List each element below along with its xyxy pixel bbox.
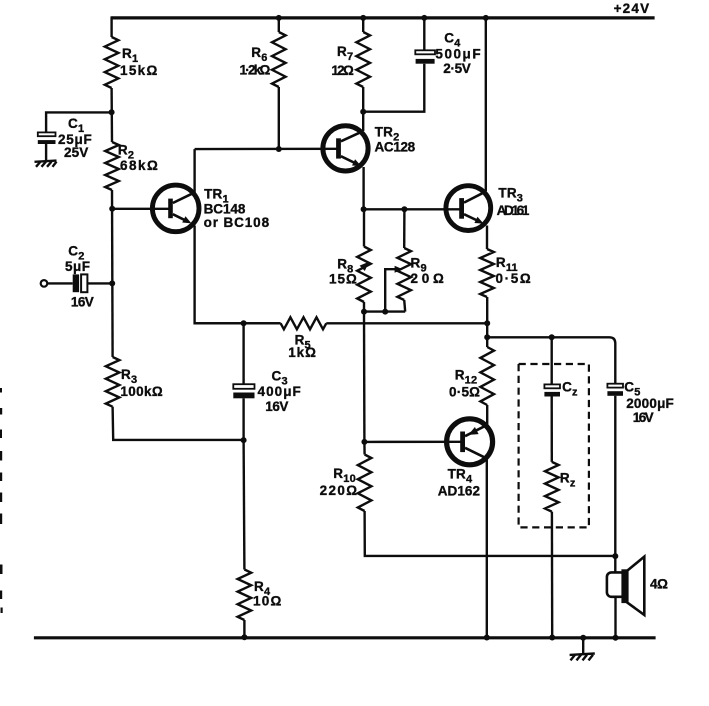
svg-text:10Ω: 10Ω (253, 594, 282, 609)
node C3 top (241, 320, 247, 326)
transistor TR4 (447, 419, 493, 465)
wire R10 to speaker node (365, 511, 616, 556)
svg-text:AD162: AD162 (438, 484, 481, 499)
wire node to R8 (363, 209, 365, 246)
svg-text:100kΩ: 100kΩ (120, 384, 162, 399)
node speaker-0V (613, 635, 619, 641)
svg-text:15Ω: 15Ω (329, 272, 357, 287)
svg-text:400μF: 400μF (258, 384, 302, 399)
wire C3 top lead (242, 323, 244, 384)
node speaker top (612, 553, 618, 559)
node junction C2 input (109, 280, 115, 286)
svg-text:5μF: 5μF (65, 259, 90, 274)
wire C3 bottom lead (242, 398, 244, 440)
wire takeoff to R12 (486, 337, 488, 347)
wire Cz to Rz (551, 397, 553, 462)
wire node to R10 (363, 442, 366, 455)
resistor R6 (272, 32, 286, 87)
svg-text:16V: 16V (633, 410, 654, 425)
node junction R2-TR1 base (109, 206, 115, 212)
svg-text:1·2kΩ: 1·2kΩ (240, 63, 271, 78)
node TR2emitter-R8 (361, 206, 367, 212)
wire R6 to TR2 base line (278, 87, 280, 149)
ground symbol (570, 654, 595, 655)
svg-text:2·5V: 2·5V (443, 61, 471, 76)
resistor R3 (106, 357, 120, 407)
resistor R1 (105, 37, 119, 88)
Zobel network dashed box (519, 364, 589, 527)
svg-text:25V: 25V (64, 145, 89, 160)
wire +24V supply rail (111, 16, 654, 19)
wire ground stub (582, 638, 584, 654)
wire TR1 collector to TR2 base (195, 148, 339, 151)
wire output rail right (326, 322, 487, 324)
resistor R8 (357, 247, 371, 303)
wire rail to C4 (423, 18, 425, 50)
svg-text:AC128: AC128 (375, 140, 416, 155)
resistor R12 (480, 347, 494, 405)
node R4-0V (241, 634, 247, 640)
node R9 wiper bottom (382, 309, 388, 315)
svg-text:+24V: +24V (614, 1, 650, 16)
wire R8 bottom (363, 302, 365, 312)
node rail-TR3 (483, 15, 489, 21)
resistor R11 (480, 249, 494, 297)
svg-text:16V: 16V (265, 399, 288, 414)
node Rz-0V (549, 635, 555, 641)
wire R1 to R2 (110, 88, 113, 142)
node TR2 collector junction (360, 109, 366, 115)
capacitor Cz (544, 384, 560, 388)
wire R9 bottom (404, 300, 405, 312)
transistor TR3 (446, 186, 491, 231)
node output takeoff (484, 334, 490, 340)
wire node to R4 (242, 440, 245, 569)
wire R8 node down to TR4 base node (363, 312, 366, 442)
capacitor C4 (415, 50, 435, 54)
loudspeaker (607, 557, 644, 615)
node R8 bottom (361, 309, 367, 315)
node R3-C3-R4 (241, 437, 247, 443)
wire TR4 base (364, 441, 460, 444)
svg-text:220Ω: 220Ω (320, 483, 358, 498)
capacitor C5 (607, 384, 623, 388)
wire R8-R9 bottom link (364, 310, 405, 312)
svg-text:500μF: 500μF (435, 46, 480, 61)
wire R12 to TR4 emitter (486, 405, 488, 425)
wire C1 to ground (45, 144, 47, 161)
svg-text:15kΩ: 15kΩ (120, 63, 158, 78)
svg-text:68kΩ: 68kΩ (120, 158, 158, 173)
wire junction to C1 (46, 112, 112, 132)
ground C1 (35, 161, 57, 162)
resistor R2 (105, 142, 119, 190)
wire C4 to TR2 collector node (363, 64, 424, 112)
wire R3 to C3 node (113, 407, 244, 440)
wire R4 to 0V rail (243, 620, 245, 638)
wire Rz to 0V rail (551, 512, 554, 638)
wire TR4 collector to 0V (486, 459, 488, 638)
wire TR2 emitter to TR3 base (364, 208, 460, 210)
wire C5 to speaker (614, 396, 616, 573)
wire TR2 collector (362, 112, 364, 131)
resistor R9 (397, 248, 411, 300)
R9 wiper arrowhead (395, 266, 403, 273)
node rail-R6 (276, 15, 282, 21)
node TR4 base-R10 (361, 439, 367, 445)
wire node to R9 (403, 209, 406, 248)
resistor R7 (356, 32, 370, 87)
R8 tap arrowhead (360, 262, 369, 271)
wire TR1 collector (193, 149, 195, 193)
wire R11 node to takeoff (486, 323, 488, 337)
R9 wiper arm (385, 269, 397, 311)
wire rail to R7 (362, 18, 364, 32)
svg-text:0·5Ω: 0·5Ω (496, 271, 531, 286)
wire input to C2 (47, 282, 72, 284)
svg-text:12Ω: 12Ω (331, 63, 354, 78)
capacitor C3 (233, 384, 254, 389)
node R9 top-TR3 base (401, 206, 407, 212)
node TR4-0V (484, 635, 490, 641)
wire TR1 emitter down (195, 226, 281, 324)
wire Cz top lead (551, 337, 553, 384)
wire TR2 emitter down (362, 167, 364, 209)
resistor R10 (358, 455, 372, 512)
capacitor C1 (38, 132, 56, 136)
wire TR1 base (112, 208, 169, 210)
wire R2 to R3 (111, 190, 114, 357)
svg-text:1kΩ: 1kΩ (288, 345, 316, 360)
resistor R4 (238, 570, 252, 621)
svg-text:20Ω: 20Ω (411, 271, 445, 286)
node junction R1-C1 (109, 109, 115, 115)
page edge printing fragments (0, 388, 2, 393)
svg-text:AD161: AD161 (497, 203, 530, 218)
svg-text:or BC108: or BC108 (204, 215, 270, 230)
transistor TR1 (152, 185, 199, 232)
wire rail to R1 (110, 16, 112, 37)
wire output rail left (195, 322, 281, 324)
wire C2 to junction (87, 282, 112, 284)
transistor TR2 (323, 126, 368, 171)
wire speaker to 0V (614, 597, 616, 638)
wire rail to R6 (278, 18, 280, 32)
capacitor C2 (73, 274, 79, 292)
node R11-R12 output (484, 320, 490, 326)
svg-text:0·5Ω: 0·5Ω (449, 385, 480, 400)
wire rail to TR3 collector (485, 18, 487, 191)
wire 0V bottom rail (34, 636, 656, 639)
wire TR3 emitter to R11 (486, 226, 488, 250)
wire R11 to output rail (486, 297, 488, 323)
wire takeoff to C5 (487, 337, 615, 383)
node rail-R7 (360, 15, 366, 21)
resistor R5 (281, 317, 327, 329)
wire R7 to TR2 collector node (362, 87, 364, 112)
svg-text:16V: 16V (71, 295, 94, 310)
resistor Rz (545, 462, 559, 512)
node input terminal (41, 280, 48, 287)
node rail-C4 (421, 15, 427, 21)
node R6-base line (276, 146, 282, 152)
node Cz top (549, 334, 555, 340)
svg-text:4Ω: 4Ω (650, 577, 668, 592)
node ground junction (580, 635, 586, 641)
